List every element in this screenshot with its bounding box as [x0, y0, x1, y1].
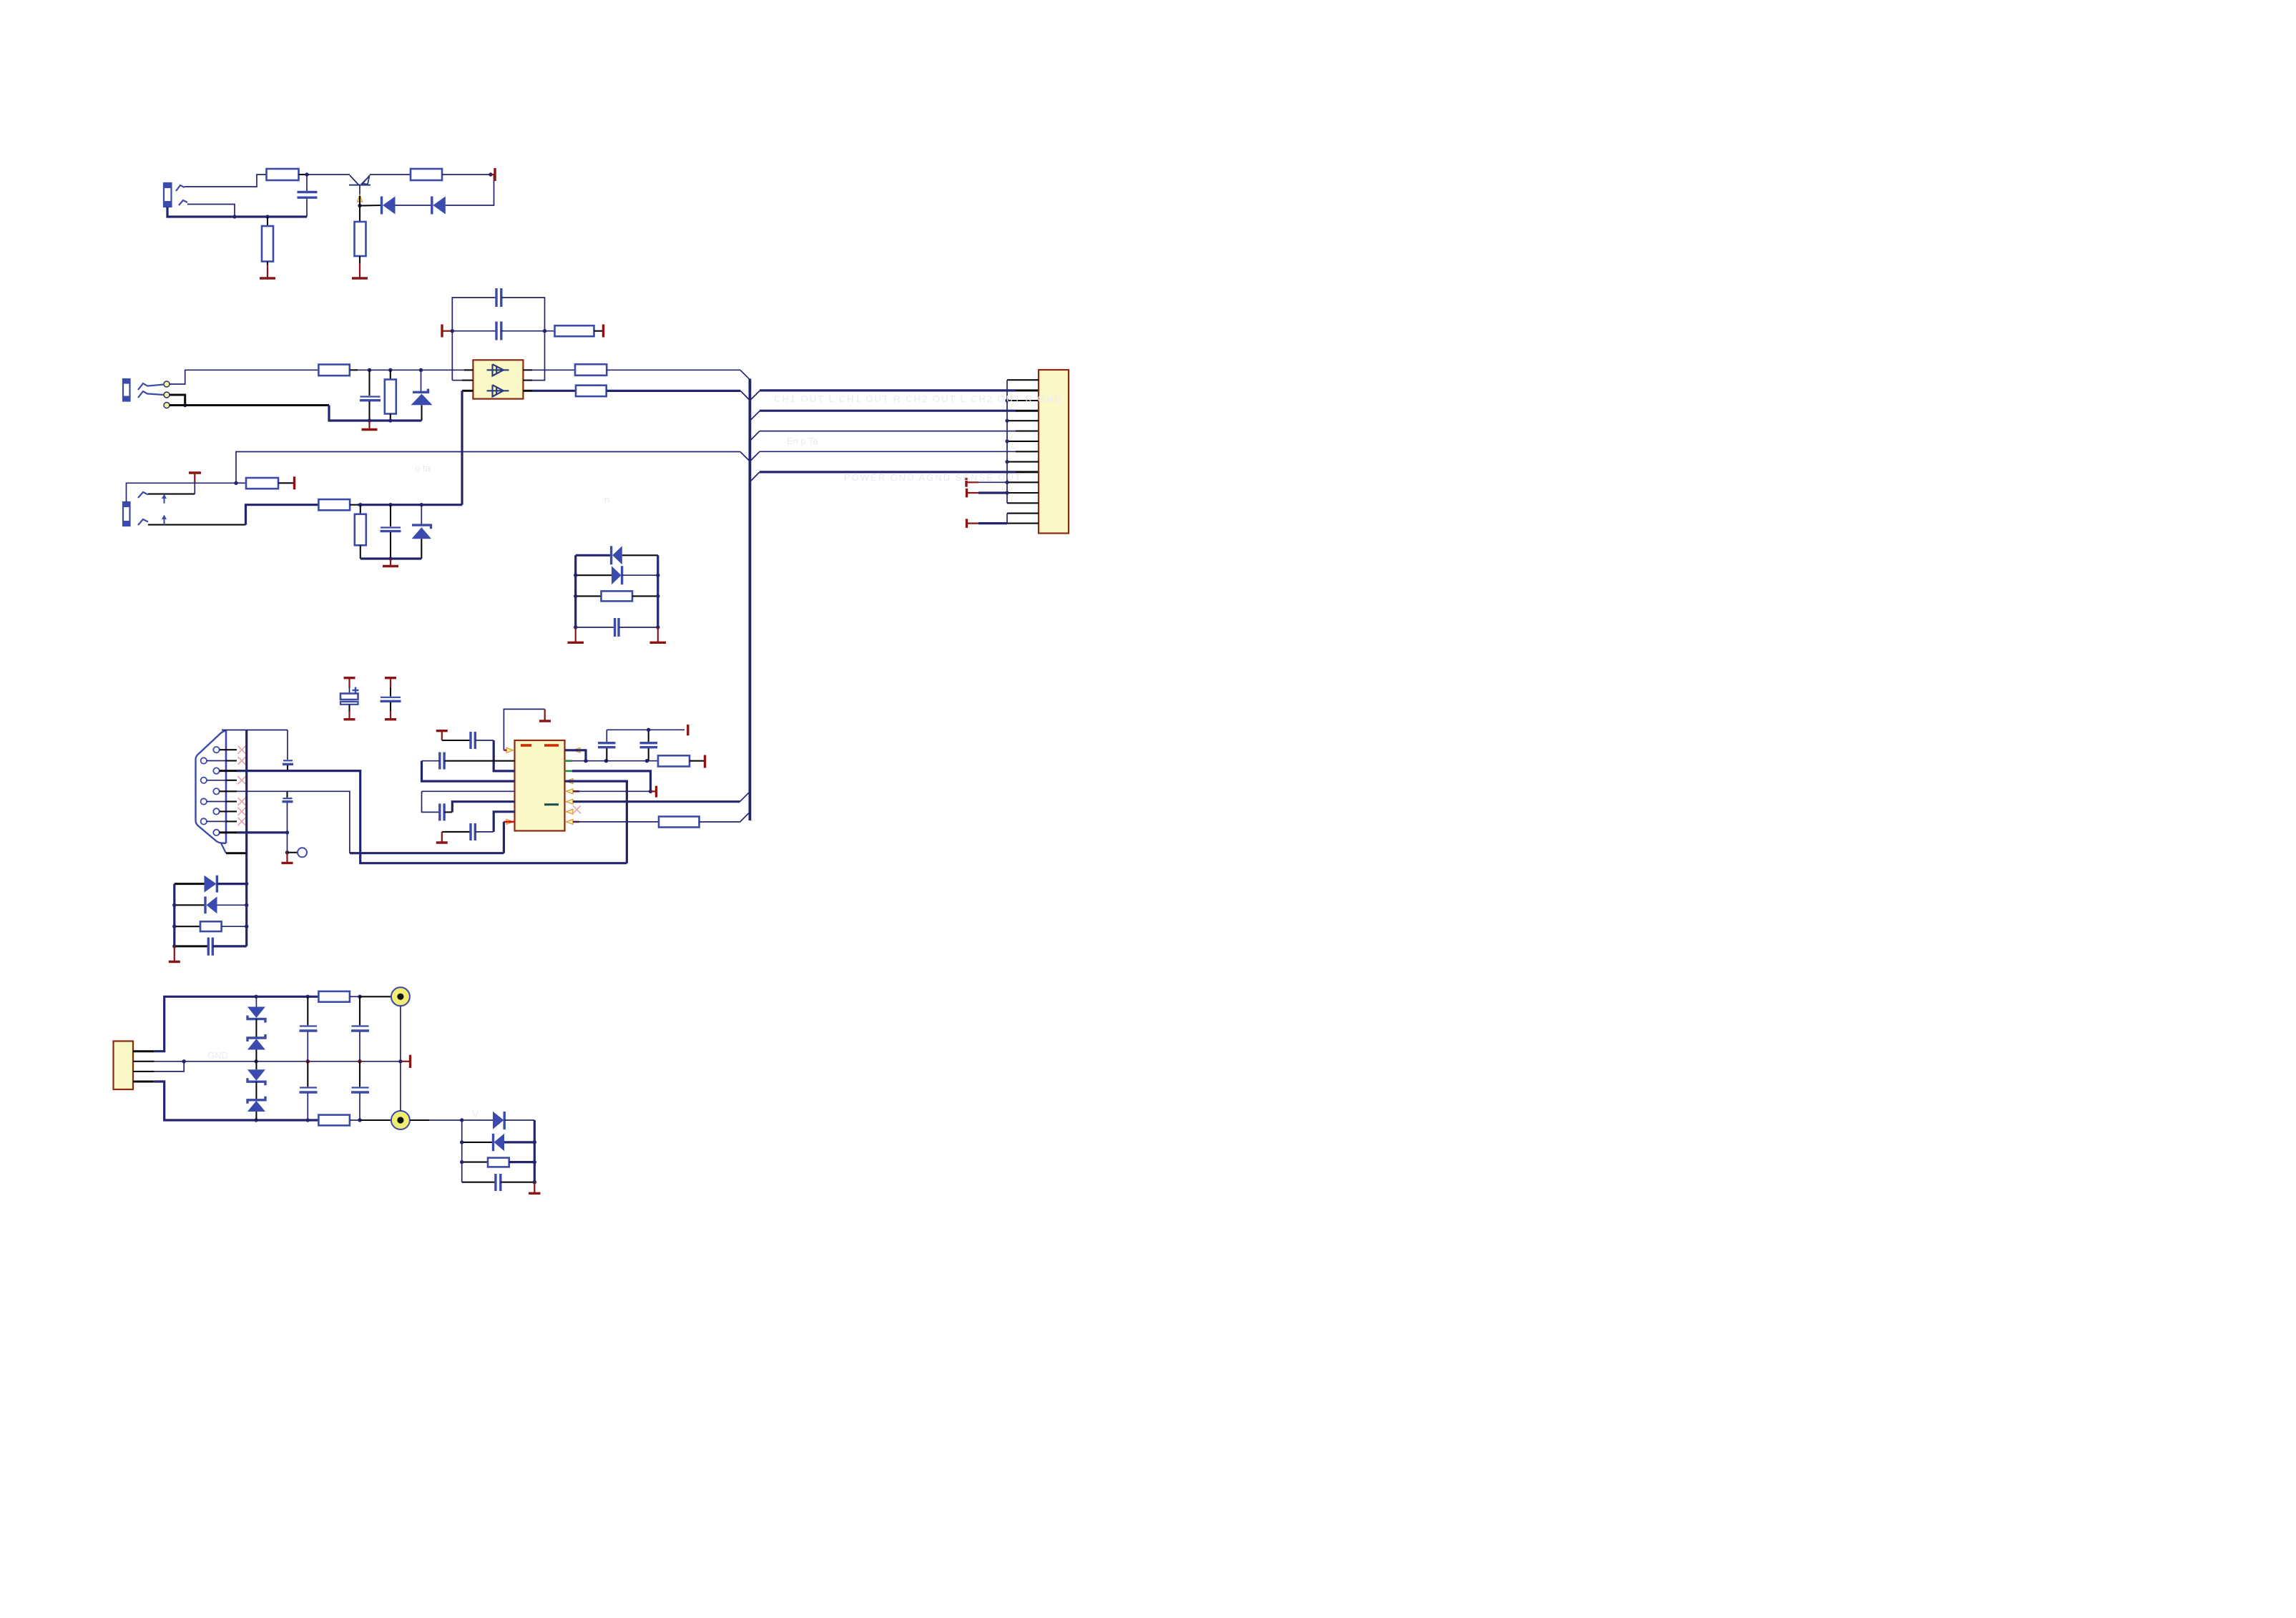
capacitor C16 [640, 730, 658, 760]
resistor R15 [659, 817, 700, 828]
wire J4 pin5 to R1IN [237, 791, 350, 853]
power bar [442, 325, 452, 338]
capacitor C14 [442, 823, 494, 840]
wire ring contact row [148, 524, 246, 526]
wire top rail [154, 995, 319, 1051]
J4 pin circles [201, 747, 220, 835]
wire C11 to U2 pin3 [494, 740, 514, 771]
wire R8 to bus [607, 369, 740, 371]
CON1 pin stubs [1007, 380, 1039, 523]
connector J2 jack body [123, 379, 130, 401]
resistor R13 [576, 591, 658, 601]
J1 ring contact [179, 200, 187, 205]
wire ground daisy vertical [1005, 380, 1009, 503]
wire ch2 to connector pin8 row [236, 452, 740, 484]
wire top row [576, 554, 612, 557]
U2 left pin arrows [506, 747, 514, 824]
resistor R11 [318, 499, 350, 510]
wire R5 to U1 input [350, 368, 474, 372]
ground right [650, 627, 667, 642]
IC U2 MAX232 [515, 740, 565, 831]
wire J1 tip to R1 [185, 175, 267, 187]
wire J2 sleeve rail [170, 404, 329, 406]
capacitor C18 [300, 996, 318, 1061]
wire J2 tip to signal row [170, 370, 318, 384]
wire pin14-15 link [1006, 514, 1008, 524]
wire shell ground drop [245, 730, 247, 946]
wire TP column [400, 1006, 401, 1111]
power bar [687, 725, 689, 735]
power bar [385, 678, 396, 687]
wire U2 V+ row [565, 759, 659, 763]
faint net labels [207, 393, 1062, 1119]
wire J4 shell top [222, 730, 288, 731]
J3 ring contact [138, 519, 148, 525]
bus exit pin2 [750, 391, 1039, 401]
warning marker (yellow) at Q1 base [358, 195, 363, 202]
capacitor C15 [598, 730, 616, 760]
resistor R18 [318, 1115, 350, 1126]
connector CON2 [114, 1041, 134, 1090]
diode D1 [382, 197, 396, 215]
diode D14 [462, 1134, 535, 1151]
wire U2 V- row [565, 771, 651, 792]
wire left vertical [460, 1120, 463, 1182]
wire U1 out1 to R8 [532, 369, 575, 371]
diode D13 [493, 1112, 534, 1129]
bus exit pin6 [750, 431, 1039, 441]
resistor R5 [318, 365, 349, 376]
resistor R12 (vertical) [355, 505, 366, 559]
zener D11 [247, 1061, 265, 1085]
power bar [690, 755, 705, 768]
wire J4 pin9 row [237, 830, 289, 834]
resistor R16 [175, 921, 247, 931]
diode D2 [432, 197, 446, 215]
wire U2 pin1 loop to ground [504, 709, 544, 750]
wire U2 right pin1 [573, 750, 579, 752]
wire R1 to Q1 collector [299, 174, 350, 175]
J1 tip contact [176, 185, 185, 191]
zener D3 [411, 370, 433, 421]
capacitor C1 [298, 175, 318, 217]
resistor R8 [575, 364, 607, 376]
power bar [293, 476, 295, 489]
U2 right pin arrows [566, 747, 581, 824]
ground [352, 263, 368, 278]
power bar pin12 [967, 489, 1008, 498]
capacitor C12 [422, 752, 515, 770]
svg-text:POWER GND AGND SENSE OUT: POWER GND AGND SENSE OUT [844, 472, 1022, 483]
zener D12 [247, 1082, 265, 1120]
switch arrow [162, 494, 167, 504]
wire feedback left vertical [452, 298, 496, 381]
node dots right vertical [245, 882, 248, 928]
wire C13 to U2 pin6 [452, 802, 514, 813]
diode D8 [175, 896, 247, 913]
wire U2 pin5 right to bar [573, 786, 657, 798]
wire R15 to bus [700, 812, 750, 822]
wire C12 to U2 pin4 [422, 761, 515, 781]
node Q1 base [358, 204, 361, 207]
wire to node [195, 482, 236, 484]
wire R7 to power bar [594, 330, 603, 332]
wire pin3 join [154, 1061, 185, 1072]
J4 right edge [225, 731, 227, 844]
wire U1 in2 from channel 2 [461, 391, 463, 504]
resistor R10 [236, 478, 293, 489]
wire tip contact row [148, 483, 195, 494]
wire left vertical [574, 555, 577, 629]
U1 pin stubs [452, 370, 532, 391]
wire cap tops to power [607, 728, 685, 732]
zener D4 [412, 505, 432, 559]
wire C14 to U2 pin7 [494, 812, 514, 832]
wire U2 pin5 row [422, 790, 515, 792]
wire R9 to bus [607, 390, 741, 392]
svg-text:En p Ta: En p Ta [787, 436, 819, 446]
ground [529, 1182, 541, 1194]
node ch2 bias [234, 481, 237, 485]
test point TP1 [391, 987, 410, 1006]
wire J4 pin3 to T1OUT [237, 771, 627, 863]
transistor Q1 (PNP) [349, 175, 371, 196]
J2 tip contact [138, 383, 148, 390]
switch arrow [162, 515, 167, 525]
power bar (C11 top) [436, 731, 448, 740]
resistor R17 [318, 991, 350, 1002]
capacitor C11 [442, 732, 494, 749]
diode D7 [175, 876, 247, 893]
ground bar [385, 711, 396, 720]
bus exit pin10 [750, 472, 1039, 482]
wire right vertical [656, 555, 659, 629]
connector CON1 [1039, 370, 1069, 534]
node shield [285, 850, 289, 854]
bus [749, 379, 752, 821]
svg-text:o ta: o ta [415, 463, 431, 474]
connector J4 DB9 body [196, 731, 227, 844]
wire bottom rail [154, 1082, 319, 1122]
power bar [189, 473, 201, 483]
pin pads J2 [164, 381, 170, 408]
capacitor C6 [576, 618, 658, 637]
diode D5 [612, 546, 658, 564]
bus entry [740, 370, 750, 380]
resistor R7 [555, 325, 594, 336]
wire left vertical [172, 884, 176, 948]
wire U2 T1OUT down [565, 781, 627, 863]
zener D10 [247, 1019, 265, 1061]
no-connect X U2 pin9 [573, 805, 581, 813]
wire ground rail jack1 [167, 207, 307, 219]
wire R1IN row [350, 852, 504, 854]
capacitor C9 [283, 730, 293, 771]
capacitor C20 [351, 996, 369, 1061]
resistor R6 (vertical) [385, 370, 396, 421]
wire U2 T2IN row [573, 821, 579, 823]
ground [436, 832, 448, 843]
wire R18 to TP2 [350, 1118, 391, 1122]
wire right vertical [533, 1120, 536, 1184]
resistor R14 [658, 755, 690, 766]
ground [282, 853, 293, 863]
ground [539, 709, 551, 721]
capacitor C4 [452, 322, 554, 340]
resistor R3 [370, 169, 491, 180]
wire base stem [359, 196, 360, 206]
resistor R9 [576, 386, 607, 396]
bus entry [740, 452, 750, 462]
bus exit pin8 [750, 451, 1039, 461]
wire J3 sleeve up [127, 483, 195, 502]
wire contacts to pads [148, 385, 164, 396]
wire rail step down [329, 406, 370, 421]
test point TP2 [391, 1111, 410, 1129]
node base/cap [305, 172, 308, 176]
resistor R2 (vertical) [262, 217, 273, 275]
diode D6 [576, 566, 658, 584]
wire J4 tail to ground drop [221, 843, 247, 853]
bus entry [740, 391, 750, 401]
capacitor C21 [351, 1061, 369, 1120]
ground rail ch1 [368, 418, 422, 422]
J3 tip contact [138, 492, 148, 498]
wire mid rail [154, 1059, 403, 1064]
svg-text:V: V [472, 1109, 479, 1119]
wire feedback top right [501, 298, 545, 381]
no-connect X marks [238, 746, 246, 825]
wire D1 to D2 [396, 205, 432, 206]
wire R11 to U1 [350, 503, 462, 506]
power bar pin15 [967, 519, 1008, 528]
svg-text:n: n [604, 494, 609, 505]
wire TP2 to block [410, 1118, 493, 1122]
bus exit pin4 [750, 411, 1039, 421]
terminal circle [288, 848, 308, 857]
ground [169, 946, 180, 962]
node feedback mid left [451, 329, 454, 333]
capacitor C13 [422, 791, 453, 820]
power bar pin11 [966, 478, 1007, 487]
svg-text:GND: GND [207, 1050, 228, 1061]
ground bar mid [401, 1055, 411, 1068]
capacitor C8 [381, 687, 401, 711]
capacitor C5 [381, 505, 401, 559]
svg-text:CH1 OUT L CH1 OUT R CH2 OUT L: CH1 OUT L CH1 OUT R CH2 OUT L CH2 OUT R … [774, 393, 1062, 404]
capacitor C10 [283, 791, 293, 853]
wire D2 to +rail [446, 175, 494, 205]
capacitor C17 [175, 938, 247, 956]
capacitor C7 (polarized) [340, 687, 359, 712]
J2 ring contact [138, 391, 148, 398]
wire ch2 signal row [246, 505, 319, 525]
resistor R19 [462, 1158, 535, 1167]
capacitor C3 [496, 288, 501, 307]
wire U1 out2 to R9 [532, 390, 576, 392]
power bar [344, 678, 355, 688]
capacitor C22 [462, 1174, 535, 1191]
resistor R1 [267, 169, 299, 180]
J4 pin stubs [207, 750, 237, 833]
CON2 stubs [133, 1051, 154, 1082]
capacitor C19 [300, 1061, 318, 1120]
power bar VCC [491, 168, 495, 181]
connector J3 jack body [123, 502, 130, 526]
connector J1 jack body [164, 183, 172, 207]
node R3/power [489, 172, 492, 176]
power bar [602, 325, 604, 338]
ground [260, 265, 275, 278]
wire J1 ring to ground rail [187, 205, 235, 217]
wire base to D1 [360, 205, 382, 207]
zener D9 [247, 996, 265, 1022]
wire U2 R1OUT to bus [573, 792, 750, 802]
ground left [568, 627, 584, 642]
wire J2 ring to sleeve row [170, 395, 187, 407]
wire R17 to TP1 [350, 995, 391, 999]
wire U2 pin8 stub [504, 822, 514, 853]
node feedback mid right [543, 329, 546, 333]
resistor R4 (vertical) [355, 206, 366, 274]
ground [362, 421, 378, 430]
U2 internal marks [521, 745, 559, 805]
ground rail ch2 [360, 557, 422, 560]
ground bar [344, 711, 355, 720]
ground [383, 559, 398, 567]
capacitor C2 [360, 370, 381, 421]
